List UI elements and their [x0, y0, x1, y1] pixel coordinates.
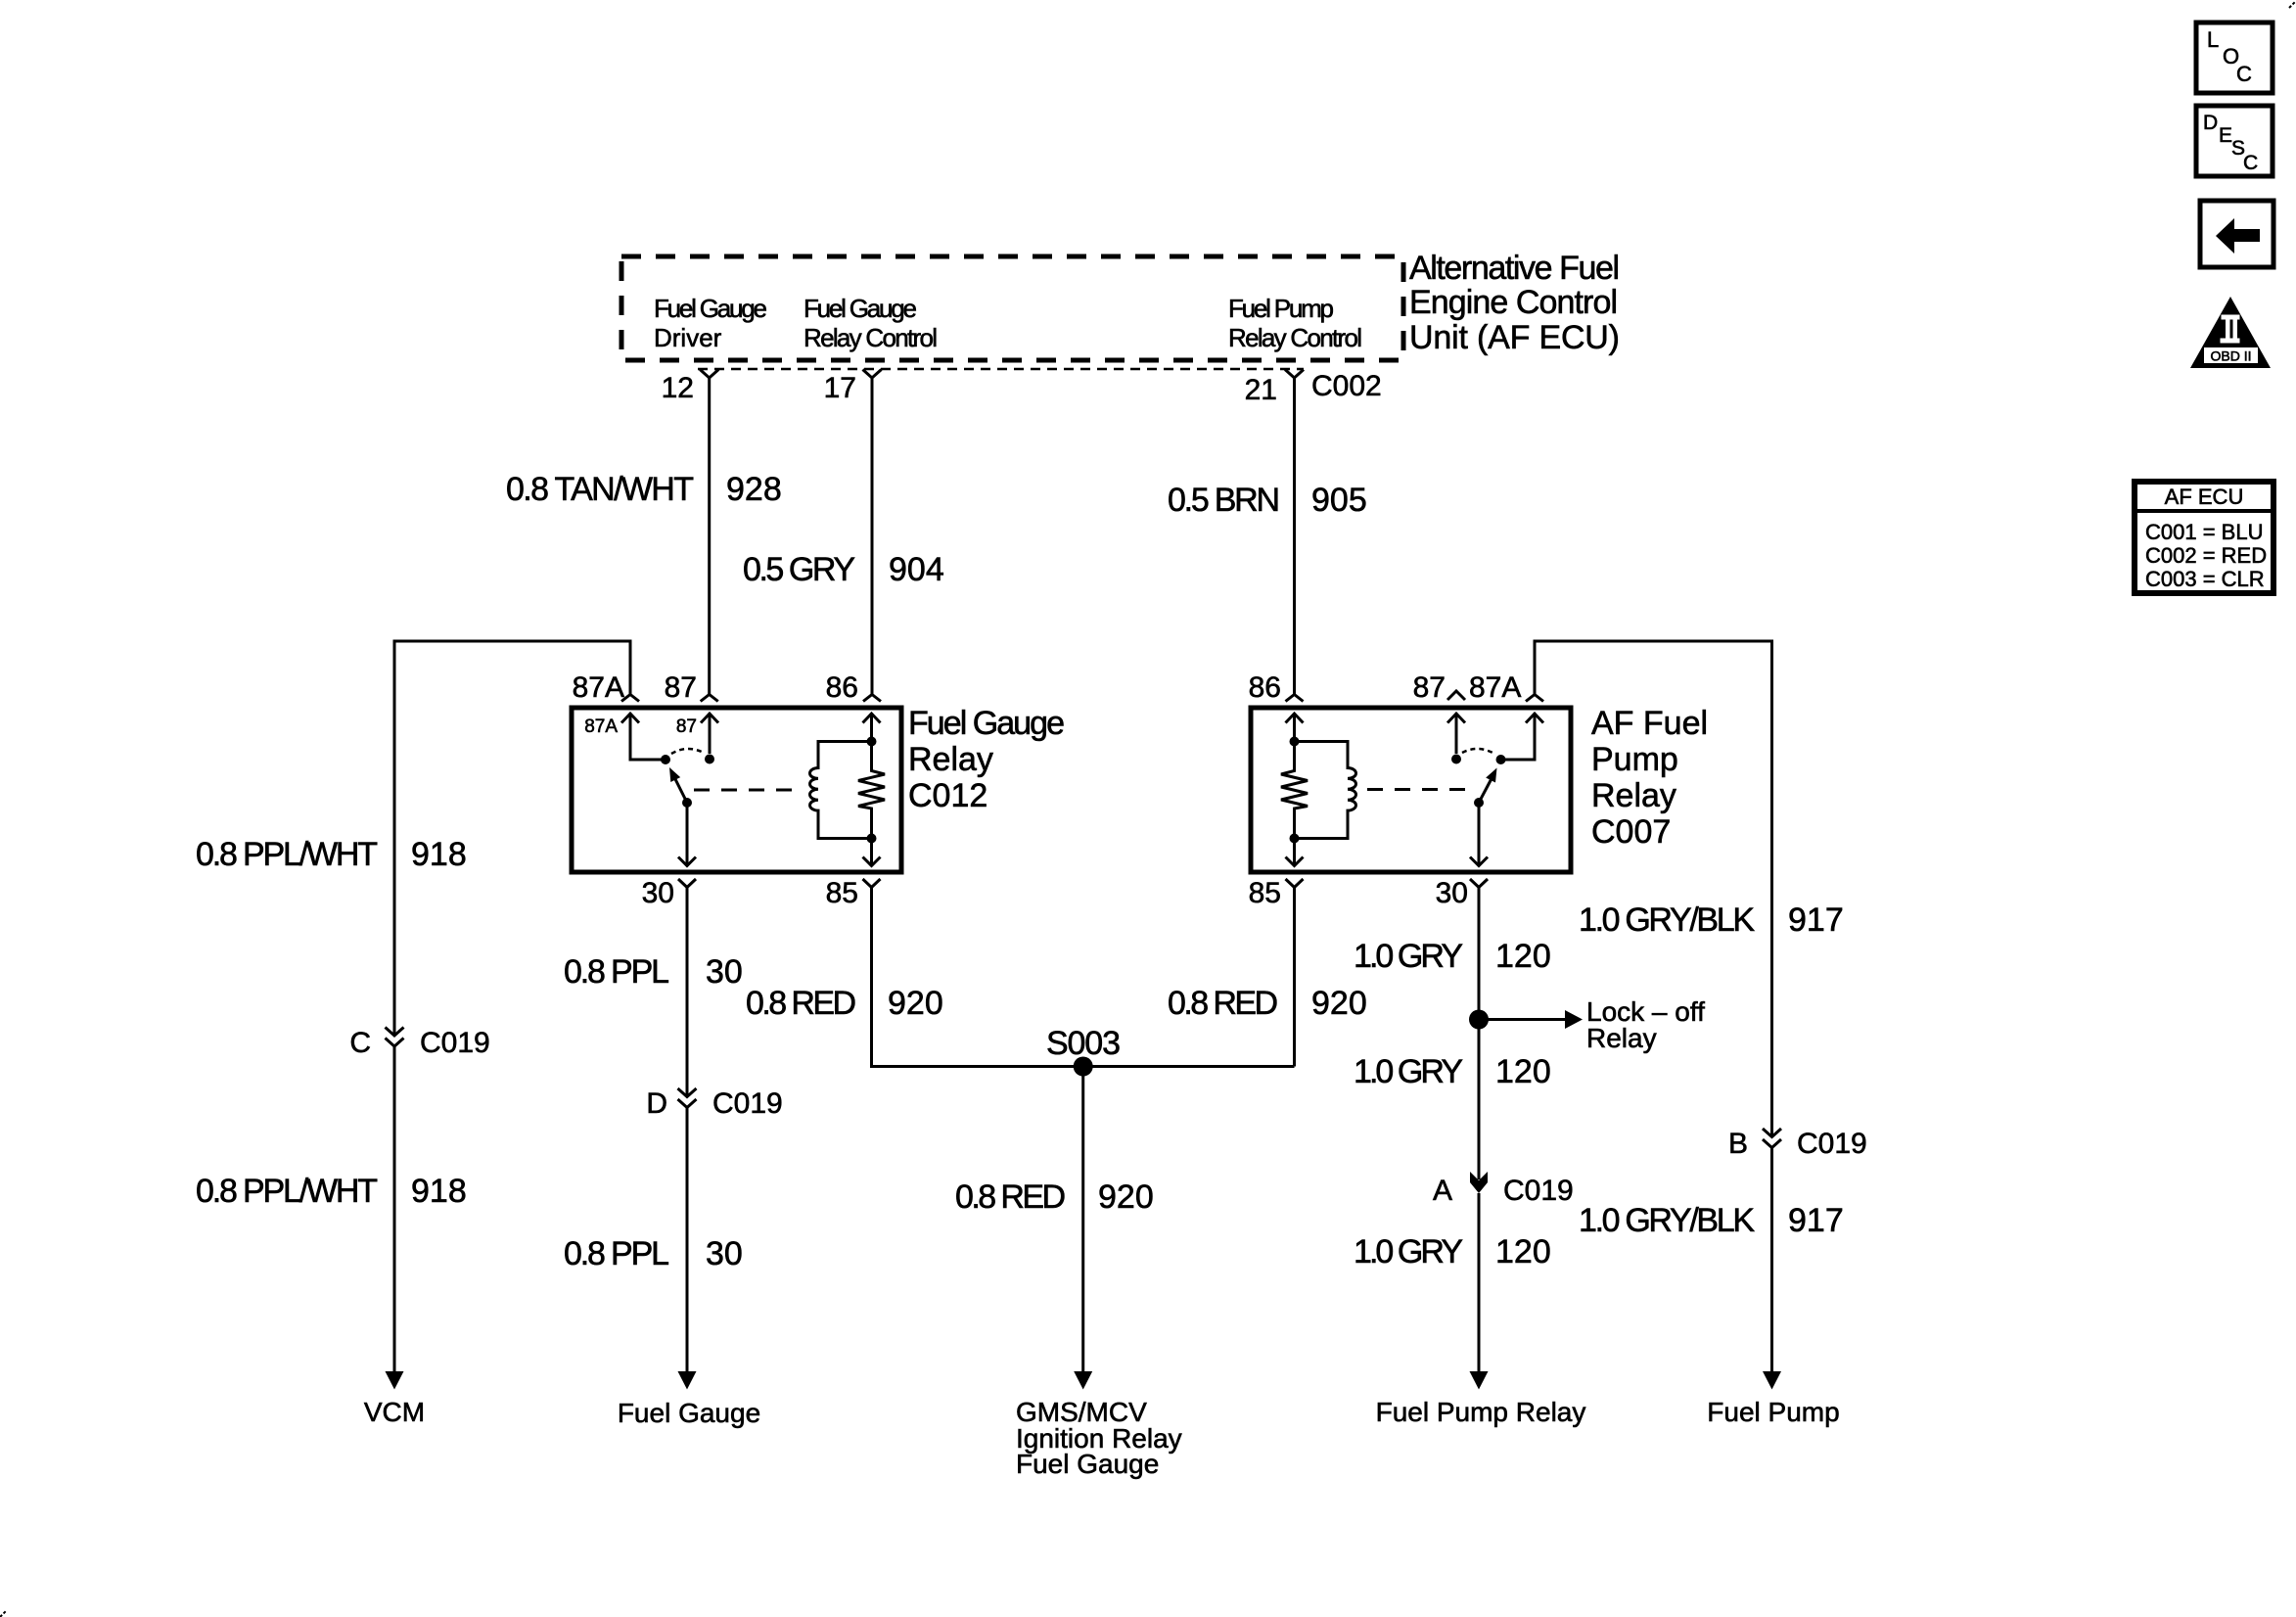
relay C012 coil — [810, 742, 868, 839]
svg-text:120: 120 — [1495, 938, 1551, 975]
arrow to Lock-off Relay — [1479, 996, 1705, 1053]
connector C002 dashed line — [698, 368, 1304, 371]
svg-text:0.8 RED: 0.8 RED — [746, 985, 856, 1022]
svg-text:120: 120 — [1495, 1233, 1551, 1270]
DESC button — [2196, 106, 2273, 176]
svg-text:920: 920 — [888, 985, 943, 1022]
svg-text:Fuel Pump: Fuel Pump — [1228, 294, 1334, 323]
AF ECU connector legend table — [2135, 482, 2273, 593]
label 1.0 GRY 120 second — [1354, 1053, 1551, 1090]
relay C012 connector 86 above box — [863, 695, 881, 702]
connector pin 12 — [662, 370, 719, 405]
svg-text:C001 = BLU: C001 = BLU — [2145, 520, 2263, 544]
splice S003 — [1046, 1025, 1121, 1077]
relay C007 contact throw arc — [1462, 749, 1494, 754]
label 0.8 TAN/WHT 928 — [506, 471, 782, 508]
relay C012 pin 86 internal — [863, 714, 881, 747]
relay C007 resistor — [1281, 742, 1308, 839]
svg-text:VCM: VCM — [364, 1397, 425, 1427]
svg-text:Relay Control: Relay Control — [1228, 323, 1362, 352]
label 1.0 GRY 120 third — [1354, 1233, 1551, 1270]
svg-text:Unit (AF ECU): Unit (AF ECU) — [1409, 319, 1620, 356]
svg-text:917: 917 — [1788, 1202, 1844, 1239]
svg-text:C019: C019 — [712, 1087, 783, 1120]
label C002 — [1311, 370, 1382, 402]
svg-text:87A: 87A — [1469, 671, 1521, 704]
svg-text:Pump: Pump — [1591, 741, 1678, 778]
relay C012 connector 87A above box — [621, 695, 639, 702]
svg-text:918: 918 — [411, 1173, 467, 1210]
svg-text:Fuel Gauge: Fuel Gauge — [908, 705, 1065, 742]
relay box C012 — [572, 708, 901, 872]
svg-text:0.8 RED: 0.8 RED — [1168, 985, 1278, 1022]
relay C007 pin 86 internal — [1286, 714, 1304, 747]
svg-text:86: 86 — [1249, 671, 1281, 704]
svg-text:1.0 GRY/BLK: 1.0 GRY/BLK — [1579, 1202, 1755, 1239]
svg-text:Fuel Pump: Fuel Pump — [1707, 1397, 1839, 1427]
arrow to VCM — [364, 1371, 425, 1427]
svg-text:L: L — [2207, 27, 2219, 52]
svg-text:87A: 87A — [573, 671, 624, 704]
relay C012 pin labels outside — [573, 671, 858, 909]
svg-text:87: 87 — [1413, 671, 1446, 704]
svg-text:0.8 PPL: 0.8 PPL — [564, 953, 669, 991]
relay box C007 — [1251, 708, 1571, 872]
junction lock-off tap — [1469, 1010, 1489, 1030]
connector A C019 — [1433, 1172, 1574, 1207]
svg-text:Fuel Gauge: Fuel Gauge — [804, 294, 917, 323]
relay C007 coil — [1299, 742, 1356, 839]
relay C012 coil link dashed — [694, 789, 803, 792]
relay C012 armature switch — [669, 767, 692, 808]
relay C012 resistor — [858, 742, 885, 839]
svg-text:0.8 RED: 0.8 RED — [955, 1178, 1066, 1216]
wire relay C007 pin85 to splice — [1293, 888, 1296, 1067]
svg-text:Fuel Pump Relay: Fuel Pump Relay — [1376, 1397, 1586, 1427]
svg-text:AF ECU: AF ECU — [2165, 485, 2244, 509]
svg-text:C019: C019 — [420, 1027, 490, 1059]
relay C012 pin 87 internal — [676, 714, 718, 764]
wire splice to GMS — [1081, 1067, 1084, 1373]
connector C C019 — [349, 1027, 489, 1059]
back arrow button — [2200, 201, 2273, 267]
svg-text:B: B — [1728, 1128, 1748, 1160]
svg-text:1.0 GRY: 1.0 GRY — [1354, 938, 1463, 975]
label 0.8 PPL 30 lower — [564, 1235, 743, 1272]
connector B C019 — [1728, 1128, 1867, 1160]
svg-text:Alternative Fuel: Alternative Fuel — [1409, 250, 1620, 287]
svg-text:S003: S003 — [1046, 1025, 1121, 1062]
relay C012 connector 85 below box — [863, 879, 881, 888]
relay C012 pin 85 internal — [863, 834, 881, 866]
wire pin12 to relay 87 — [708, 378, 711, 694]
svg-text:Relay: Relay — [1591, 777, 1676, 814]
relay C007 connector 30 below box — [1470, 879, 1488, 888]
svg-text:12: 12 — [662, 372, 694, 404]
svg-text:0.8 PPL/WHT: 0.8 PPL/WHT — [196, 1173, 378, 1210]
label Alternative Fuel Engine Control Unit (AF ECU) — [1409, 250, 1620, 356]
relay C007 armature switch — [1474, 768, 1497, 808]
relay C007 coil link dashed — [1367, 788, 1468, 791]
wire relay C007 87A to fuel pump rail — [1535, 641, 1772, 1137]
svg-text:D: D — [2203, 112, 2218, 134]
svg-text:C012: C012 — [908, 777, 987, 814]
svg-text:C: C — [2236, 62, 2252, 86]
label 0.8 RED 920 left — [746, 985, 943, 1022]
svg-text:918: 918 — [411, 836, 467, 873]
svg-text:87: 87 — [676, 716, 697, 737]
label 1.0 GRY/BLK 917 lower — [1579, 1202, 1844, 1239]
svg-text:0.5 GRY: 0.5 GRY — [743, 551, 855, 588]
relay C007 pin 85 internal — [1286, 834, 1304, 866]
svg-text:920: 920 — [1098, 1178, 1154, 1216]
LOC button — [2196, 23, 2273, 93]
svg-text:86: 86 — [826, 671, 858, 704]
svg-text:Driver: Driver — [654, 323, 722, 352]
svg-text:Engine Control: Engine Control — [1409, 284, 1618, 321]
arrow to GMS/MCV — [1016, 1371, 1182, 1479]
svg-text:85: 85 — [826, 877, 858, 909]
relay C007 connector 87 above box — [1447, 691, 1465, 700]
wire fuel pump rail lower — [1770, 1148, 1773, 1373]
label AF Fuel Pump Relay C007 — [1591, 705, 1708, 851]
svg-text:928: 928 — [726, 471, 782, 508]
label 0.5 BRN 905 — [1168, 482, 1367, 519]
svg-text:87A: 87A — [584, 716, 618, 737]
label 1.0 GRY 120 first — [1354, 938, 1551, 975]
svg-text:120: 120 — [1495, 1053, 1551, 1090]
svg-text:C019: C019 — [1797, 1128, 1867, 1160]
svg-text:Fuel Gauge: Fuel Gauge — [654, 294, 767, 323]
svg-text:30: 30 — [1436, 877, 1468, 909]
relay C012 connector 30 below box — [678, 879, 696, 888]
svg-text:87: 87 — [665, 671, 697, 704]
svg-text:C: C — [349, 1027, 371, 1059]
connector pin 21 — [1245, 370, 1304, 407]
arrow to Fuel Pump — [1707, 1371, 1839, 1427]
svg-text:C003 = CLR: C003 = CLR — [2145, 567, 2265, 591]
wire VCM rail top — [394, 641, 630, 1036]
svg-text:1.0 GRY: 1.0 GRY — [1354, 1233, 1463, 1270]
label Fuel Gauge Relay Control — [804, 294, 938, 352]
wire relay C012 pin85 to splice — [872, 888, 1295, 1067]
AF ECU dashed box — [621, 256, 1403, 360]
relay C012 contact throw arc — [671, 749, 704, 754]
relay C007 pin 30 internal — [1470, 803, 1488, 866]
svg-text:C007: C007 — [1591, 813, 1671, 851]
label 0.8 PPL/WHT 918 lower — [196, 1173, 467, 1210]
connector pin 17 — [824, 370, 882, 405]
corner mark top right — [2289, 1, 2296, 8]
label Fuel Pump Relay Control — [1228, 294, 1362, 352]
label 0.8 RED 920 bottom — [955, 1178, 1154, 1216]
label 0.8 PPL 30 upper — [564, 953, 743, 991]
relay C007 pin labels outside — [1249, 671, 1522, 909]
arrow to Fuel Gauge — [618, 1371, 760, 1428]
svg-text:30: 30 — [706, 1235, 743, 1272]
svg-text:Relay: Relay — [908, 741, 993, 778]
relay C007 connector 87A above box — [1526, 695, 1543, 702]
wire pin17 to relay 86 — [871, 378, 874, 694]
relay C007 pin 87A internal — [1496, 714, 1544, 764]
svg-text:C002: C002 — [1311, 370, 1382, 402]
svg-text:OBD II: OBD II — [2210, 348, 2251, 364]
wire VCM rail lower — [393, 1046, 396, 1372]
svg-text:Relay Control: Relay Control — [804, 323, 938, 352]
svg-text:D: D — [646, 1087, 667, 1120]
label 0.5 GRY 904 — [743, 551, 944, 588]
svg-text:1.0 GRY/BLK: 1.0 GRY/BLK — [1579, 901, 1755, 939]
svg-text:C002 = RED: C002 = RED — [2145, 543, 2267, 568]
svg-text:C019: C019 — [1503, 1175, 1574, 1207]
svg-text:30: 30 — [706, 953, 743, 991]
svg-text:920: 920 — [1311, 985, 1367, 1022]
svg-text:21: 21 — [1245, 374, 1277, 406]
wire relay C012 pin30 to fuel gauge — [686, 888, 689, 1097]
svg-text:17: 17 — [824, 372, 856, 404]
wire relay C007 pin30 down — [1478, 888, 1481, 1180]
svg-text:0.8 TAN/WHT: 0.8 TAN/WHT — [506, 471, 694, 508]
label 1.0 GRY/BLK 917 upper — [1579, 901, 1844, 939]
label Fuel Gauge Relay C012 — [908, 705, 1065, 814]
relay C012 connector 87 above box — [701, 695, 718, 702]
svg-text:904: 904 — [889, 551, 944, 588]
svg-text:A: A — [1433, 1175, 1452, 1207]
svg-text:Relay: Relay — [1586, 1023, 1657, 1053]
relay C007 connector 85 below box — [1286, 879, 1304, 888]
corner mark bottom left — [0, 1611, 6, 1617]
svg-text:905: 905 — [1311, 482, 1367, 519]
svg-text:0.8 PPL/WHT: 0.8 PPL/WHT — [196, 836, 378, 873]
svg-text:0.8 PPL: 0.8 PPL — [564, 1235, 669, 1272]
svg-text:Fuel Gauge: Fuel Gauge — [1016, 1449, 1159, 1479]
svg-text:1.0 GRY: 1.0 GRY — [1354, 1053, 1463, 1090]
connector D C019 — [646, 1087, 782, 1120]
wire pin21 to relay 86 — [1293, 378, 1296, 694]
relay C007 pin 87 internal — [1447, 714, 1465, 764]
svg-text:Fuel Gauge: Fuel Gauge — [618, 1398, 760, 1428]
svg-text:30: 30 — [642, 877, 674, 909]
svg-text:E: E — [2219, 124, 2232, 147]
OBD II symbol — [2190, 297, 2271, 368]
svg-text:917: 917 — [1788, 901, 1844, 939]
svg-text:0.5 BRN: 0.5 BRN — [1168, 482, 1280, 519]
wire to fuel pump relay — [1478, 1193, 1481, 1372]
svg-text:AF Fuel: AF Fuel — [1591, 705, 1708, 742]
relay C012 pin 87A internal — [584, 714, 670, 764]
label 0.8 PPL/WHT 918 upper — [196, 836, 467, 873]
label Fuel Gauge Driver — [654, 294, 767, 352]
relay C012 pin 30 internal — [678, 803, 696, 866]
svg-text:85: 85 — [1249, 877, 1281, 909]
arrow to Fuel Pump Relay — [1376, 1371, 1586, 1427]
label 0.8 RED 920 right — [1168, 985, 1367, 1022]
relay C007 connector 86 above box — [1286, 695, 1304, 702]
svg-text:C: C — [2243, 152, 2258, 174]
